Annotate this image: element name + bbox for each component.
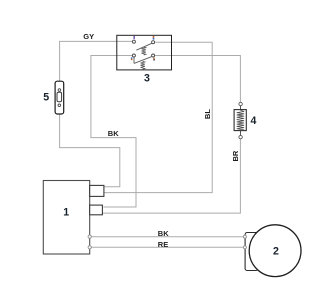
fuse 5 element: [57, 92, 62, 101]
switch lever lower: [134, 56, 152, 63]
switch lever lower stub: [133, 57, 135, 63]
wire BK: unit 1 to motor 2 upper: [91, 236, 243, 238]
fuse 5 body: [55, 81, 64, 114]
svg-text:RE: RE: [158, 240, 168, 249]
motor 2 body: [249, 225, 301, 277]
resistor 4 body: [240, 106, 242, 136]
pin number 3 mark: [131, 57, 133, 58]
contact pin 2 (top right): [152, 41, 155, 44]
unit 1 terminal upper: [88, 235, 91, 238]
svg-text:BR: BR: [231, 150, 240, 161]
wire: fuse bottom to unit 1 tab1: [60, 114, 120, 187]
unit 1 body: [43, 181, 89, 255]
resistor 4 top terminal: [239, 102, 242, 105]
motor 2 terminal lower: [243, 246, 246, 249]
svg-text:4: 4: [251, 115, 257, 127]
wire RE: unit 1 to motor 2 lower: [91, 246, 243, 248]
svg-text:2: 2: [273, 245, 279, 257]
svg-text:BK: BK: [158, 229, 169, 238]
wire BR: resistor 4 bottom to unit 1 tab2: [102, 139, 240, 213]
unit 1 terminal lower: [88, 246, 91, 249]
svg-text:BL: BL: [203, 109, 212, 119]
svg-text:3: 3: [144, 73, 150, 85]
pin number 5 mark: [153, 58, 155, 59]
motor 2 terminal upper: [243, 235, 246, 238]
wire GY: fuse top to switch box 3 left pin 1: [60, 41, 133, 82]
resistor 4 coil: [237, 110, 244, 131]
fuse 5 bottom contact: [58, 104, 61, 107]
contact pin 3 (bottom left): [132, 54, 135, 57]
pin number 2 mark: [153, 36, 155, 38]
svg-text:GY: GY: [83, 32, 94, 41]
switch box 3 outline: [117, 35, 172, 70]
spring upper: [142, 47, 146, 55]
contact pin 1 (top left): [132, 40, 135, 43]
svg-text:5: 5: [43, 92, 49, 104]
svg-text:1: 1: [63, 206, 69, 218]
switch lever upper: [136, 43, 152, 50]
wire: switch box 3 right pin 5 to resistor 4 top: [155, 56, 241, 103]
contact pin 5 (bottom right): [152, 54, 155, 57]
spring lower: [141, 61, 145, 69]
unit 1 connector tab lower: [90, 205, 103, 215]
svg-text:BK: BK: [108, 129, 119, 138]
wire BL: switch box 3 right pin 2 to unit 1 tab1: [103, 42, 212, 192]
wire BK: switch box 3 left pin 3 down to unit 1 tab2: [91, 56, 136, 208]
pin number 1 mark: [134, 36, 135, 39]
motor 2 bracket: [245, 233, 258, 271]
resistor 4 bottom terminal: [239, 135, 242, 138]
unit 1 connector tab upper: [90, 185, 104, 196]
fuse 5 top contact: [58, 89, 61, 92]
